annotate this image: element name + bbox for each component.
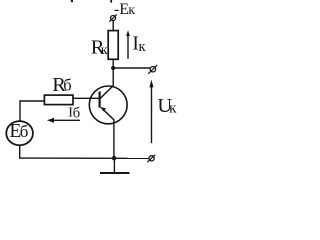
arrow Uк (voltage, up)	[151, 85, 153, 144]
terminal (bottom right)	[149, 156, 154, 161]
transistor VT1 circle	[89, 86, 127, 124]
transistor VT1 emitter lead with arrow (PNP)	[101, 108, 114, 120]
node (emitter junction)	[112, 156, 116, 160]
svg-text:к: к	[169, 101, 177, 117]
svg-text:б: б	[73, 106, 80, 122]
arrow Iб (current, left)	[53, 119, 80, 121]
label Iб	[68, 106, 80, 122]
wire Rк to collector node	[112, 59, 114, 68]
label -Eк (supply)	[114, 1, 135, 18]
wire Rб to corner (left segment)	[20, 100, 45, 102]
arrow Iк (current, up)	[127, 35, 129, 59]
wire Eб to bottom rail	[19, 146, 21, 159]
node (collector junction)	[111, 66, 115, 70]
svg-text:к: к	[128, 2, 135, 17]
wire terminal to Rк	[112, 21, 114, 31]
resistor Rб	[44, 95, 73, 105]
ground bar	[100, 172, 130, 174]
ground stem	[113, 158, 115, 173]
resistor Rк	[108, 31, 118, 60]
wire base to Rб (right segment)	[73, 97, 99, 99]
svg-text:б: б	[63, 76, 71, 95]
wire emitter vertical	[113, 119, 115, 158]
svg-text:к: к	[139, 39, 147, 55]
source Eб circle	[6, 121, 33, 145]
wire left vertical to Eб	[19, 100, 21, 120]
terminal (top, -Eк)	[111, 16, 116, 21]
label Eб	[9, 121, 28, 142]
transistor VT1 collector lead	[100, 86, 113, 99]
transistor VT1 base bar	[98, 91, 100, 107]
svg-text:к: к	[101, 43, 108, 58]
label Rк	[91, 36, 108, 58]
top edge tick left (cropped remnant)	[71, 0, 73, 2]
wire collector vertical	[112, 68, 114, 86]
label Rб	[52, 74, 71, 96]
terminal (right, collector output)	[150, 67, 155, 72]
top edge tick right (cropped remnant)	[110, 0, 112, 3]
label Uк	[157, 95, 177, 117]
wire bottom rail	[20, 157, 149, 159]
label Iк	[132, 33, 146, 55]
svg-text:б: б	[20, 122, 29, 141]
wire node to right terminal	[113, 67, 150, 69]
